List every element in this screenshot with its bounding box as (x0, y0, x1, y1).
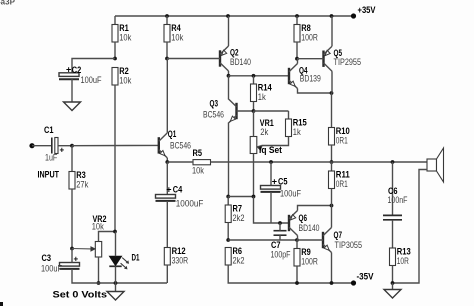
wire R15 top lead (288, 111, 290, 119)
node R3/C3/VR2 wiper (70, 247, 74, 251)
wire C6 to R13 (392, 220, 394, 248)
wire to Q7 base junction (228, 239, 297, 241)
potentiometer VR2 (72, 242, 102, 258)
wire Q3 emitter down to R7 node (228, 124, 230, 197)
node Q6 collector/R9/Q7 base (295, 238, 299, 242)
svg-text:R15: R15 (293, 117, 307, 127)
svg-text:R9: R9 (301, 247, 311, 257)
label -35V (357, 271, 374, 281)
wire C5 bottom lead (270, 192, 272, 223)
svg-text:-a3P: -a3P (0, 0, 16, 7)
wire VR1 bottom lead crossing output line (253, 154, 255, 197)
wire to Q1 base (72, 144, 159, 146)
wire Q3 collector up (228, 76, 230, 99)
svg-text:R2: R2 (119, 66, 129, 76)
svg-text:1k: 1k (258, 92, 266, 102)
capacitor C1 (52, 138, 58, 154)
ground stem (Zobel) (392, 283, 394, 290)
svg-text:Iq Set: Iq Set (259, 145, 282, 155)
wire D1 cathode to rail (115, 266, 117, 283)
capacitor C6 (383, 215, 402, 219)
node top rail / Q5 emitter (330, 14, 334, 18)
wire D1 anode (115, 232, 117, 257)
capacitor C5 (261, 186, 281, 192)
wire input to C1 (32, 145, 51, 147)
svg-text:TIP3055: TIP3055 (335, 240, 363, 250)
wire C7 bottom lead (279, 235, 281, 240)
node top rail / R4 (165, 14, 169, 18)
svg-text:R5: R5 (193, 148, 203, 158)
wire speaker return (393, 170, 428, 284)
capacitor C7 (274, 231, 287, 236)
wire R15 bottom to VR1 wiper (262, 137, 289, 146)
resistor R6 (225, 246, 244, 265)
svg-text:R6: R6 (233, 246, 243, 256)
svg-text:+: + (74, 254, 79, 263)
ground (main) (107, 292, 124, 301)
wire R3 bottom lead (71, 189, 73, 249)
wire R9 bottom lead (296, 266, 298, 283)
wire Q6 collector down (297, 236, 299, 241)
node C1/R3/Q1 base (70, 144, 74, 148)
svg-text:100R: 100R (301, 32, 318, 42)
svg-text:R13: R13 (397, 246, 411, 256)
wire R2 to VR2/D1 node (114, 85, 116, 232)
label +35V (358, 5, 376, 15)
svg-text:BC546: BC546 (170, 140, 191, 150)
node top rail / R8 (295, 14, 299, 18)
wire R7 bottom lead (227, 223, 229, 241)
svg-text:1000uF: 1000uF (176, 198, 204, 208)
wire R7 node to VR1 bottom (228, 196, 253, 198)
wire Q4 collector up (297, 59, 299, 64)
svg-text:100nF: 100nF (388, 195, 408, 205)
transistor Q5 (324, 46, 333, 71)
resistor R9 (294, 247, 318, 266)
wire R11 bottom lead (331, 189, 333, 206)
label VR2 value (92, 222, 104, 232)
svg-text:-35V: -35V (357, 271, 374, 281)
svg-text:Q2: Q2 (230, 47, 239, 57)
node R1/R2/C2 (113, 57, 117, 61)
svg-text:C2: C2 (72, 65, 82, 75)
svg-text:R12: R12 (172, 246, 186, 256)
resistor R4 (164, 23, 184, 43)
svg-text:0R1: 0R1 (336, 135, 348, 145)
label D1 (132, 252, 140, 262)
svg-text:100uF: 100uF (41, 263, 62, 273)
svg-text:R7: R7 (233, 203, 243, 213)
wire top +35V rail (115, 15, 354, 17)
wire Q2 emitter to rail (228, 16, 230, 46)
wire R12 bottom lead (166, 265, 168, 283)
svg-text:BD140: BD140 (299, 223, 320, 233)
wire R3 top lead (71, 146, 73, 172)
svg-text:10k: 10k (192, 165, 204, 175)
svg-text:+: + (272, 176, 277, 186)
svg-text:1uF: 1uF (45, 152, 58, 162)
wire to C4 (166, 162, 168, 195)
resistor R5 (193, 160, 211, 165)
node D1/ground rail (114, 281, 118, 285)
node R2/VR2/D1 (113, 230, 117, 234)
wire to C6 (392, 162, 394, 215)
svg-text:BC546: BC546 (203, 109, 224, 119)
wire C4 to R12 (166, 201, 168, 248)
svg-text:Q7: Q7 (334, 230, 343, 240)
wire R8 top lead (296, 16, 298, 25)
node R4/Q2 base (165, 57, 169, 61)
svg-text:100R: 100R (301, 256, 318, 266)
label Iq Set (259, 145, 282, 155)
node output/C5 (269, 160, 273, 164)
wire C2 to R1-R2 node (72, 59, 115, 73)
ground stem (main) (115, 283, 117, 292)
wire Q1 emitter down (166, 158, 168, 162)
node output/R10/R11 (330, 160, 334, 164)
svg-text:TIP2955: TIP2955 (334, 57, 362, 67)
transistor Q1 (159, 133, 168, 158)
wire to Q4 base (229, 75, 290, 77)
artifact bottom-left corner (0, 302, 3, 306)
node R11/Q6 emitter/Q7 collector (330, 204, 334, 208)
resistor R12 (164, 246, 188, 265)
resistor R11 (329, 169, 350, 189)
wire R13 bottom lead (392, 266, 394, 284)
svg-text:27k: 27k (76, 179, 88, 189)
wire R14 top lead (253, 76, 255, 84)
ground (C2) (64, 102, 81, 111)
wire Q3 base (237, 110, 254, 112)
svg-text:INPUT: INPUT (38, 170, 60, 180)
label INPUT (38, 170, 60, 180)
resistor R15 (286, 117, 307, 137)
svg-text:+: + (60, 145, 65, 154)
node R8/Q4 collector/Q5 base (295, 57, 299, 61)
node Q1 emitter/R5/C4 (165, 160, 169, 164)
node R9/-35V rail (295, 281, 299, 285)
wire R14 bottom lead (253, 102, 255, 112)
node R13/speaker return (391, 281, 395, 285)
wire Q6 emitter up (298, 206, 332, 211)
svg-text:10R: 10R (397, 256, 409, 266)
wire Q5 collector down (331, 71, 333, 93)
svg-text:100pF: 100pF (271, 249, 291, 259)
svg-text:10k: 10k (119, 75, 131, 85)
node R6/R7/Q7 base line (226, 238, 230, 242)
wire C2 to ground (71, 79, 73, 102)
svg-text:1k: 1k (293, 127, 301, 137)
resistor R7 (225, 203, 244, 223)
wire to R10 (331, 93, 333, 128)
wire R7 top lead (227, 197, 229, 206)
wire Q2 base (167, 58, 220, 60)
node top rail / Q2 emitter (226, 14, 230, 18)
artifact top-left corner (0, 0, 16, 7)
node R7 top (226, 195, 230, 199)
resistor R13 (390, 246, 411, 265)
svg-text:C5: C5 (278, 177, 288, 187)
resistor R8 (294, 23, 318, 43)
svg-text:Q1: Q1 (168, 129, 177, 139)
node C7 top/Q6 base (278, 221, 282, 225)
svg-text:10k: 10k (92, 222, 104, 232)
node R14 top (252, 74, 256, 78)
svg-text:Q3: Q3 (210, 99, 219, 109)
wire C3 top lead (71, 249, 73, 263)
svg-text:C3: C3 (42, 253, 52, 263)
svg-text:10k: 10k (119, 32, 131, 42)
speaker LS1 (427, 148, 444, 182)
svg-text:C1: C1 (44, 125, 54, 135)
svg-text:R1: R1 (119, 23, 129, 33)
wire VR2 top to R2 column (99, 232, 116, 242)
resistor R14 (251, 82, 272, 102)
wire R6 top lead (227, 248, 229, 258)
node VR2/ground rail (97, 281, 101, 285)
wire C1 to node (58, 145, 72, 147)
wire Q1 collector to R4 (166, 59, 168, 133)
node Q2 coll/Q3 coll/R14 (227, 74, 231, 78)
node Q5 collector/Q4 emitter/R10 (330, 91, 334, 95)
wire to Q6 base (254, 197, 290, 224)
wire ground rail left (72, 269, 167, 283)
svg-text:R4: R4 (171, 23, 181, 33)
resistor R10 (329, 126, 350, 146)
svg-text:+: + (66, 65, 71, 75)
resistor R1 (112, 23, 132, 43)
potentiometer VR1 (250, 137, 262, 154)
svg-text:Set 0 Volts: Set 0 Volts (53, 290, 108, 300)
wire R11 top lead (331, 162, 333, 171)
svg-text:2k2: 2k2 (233, 255, 245, 265)
resistor R2 (112, 66, 132, 86)
svg-text:R11: R11 (336, 169, 350, 179)
svg-text:2k: 2k (260, 127, 268, 137)
svg-text:+35V: +35V (358, 5, 376, 15)
wire Q5 base (297, 58, 324, 60)
wire Q7 emitter to -35V rail (331, 253, 333, 284)
svg-text:BD140: BD140 (230, 57, 251, 67)
node VR1 bottom (252, 195, 256, 199)
svg-text:R14: R14 (258, 82, 272, 92)
wire R1 bottom lead (114, 42, 116, 59)
wire R8 bottom lead (296, 42, 298, 59)
resistor R3 (69, 170, 89, 190)
transistor Q6 (289, 211, 298, 236)
wire -35V rail (228, 265, 353, 283)
wire C7 top lead (279, 223, 281, 231)
wire VR1 top lead (253, 111, 255, 137)
node Q7/-35V rail (330, 281, 334, 285)
capacitor C4 (156, 195, 176, 201)
transistor Q4 (289, 64, 298, 89)
wire C5 top lead (270, 162, 272, 186)
transistor Q7 (323, 228, 332, 253)
terminal -35V (351, 280, 356, 285)
transistor Q3 (228, 99, 237, 124)
capacitor C3 (60, 263, 80, 269)
wire Q2 collector down (228, 71, 230, 76)
svg-text:100uF: 100uF (81, 75, 102, 85)
svg-text:C4: C4 (173, 185, 183, 195)
label Set 0 Volts (53, 290, 108, 300)
svg-text:10k: 10k (171, 32, 183, 42)
svg-text:R3: R3 (76, 170, 86, 180)
ground (Zobel) (384, 290, 401, 299)
wire R9 top lead (296, 240, 298, 249)
node output/Zobel (391, 160, 395, 164)
wire VR2 bottom to ground rail (98, 257, 100, 283)
wire Q1 emitter to R5 (167, 161, 193, 163)
svg-text:Q6: Q6 (299, 213, 308, 223)
svg-text:R10: R10 (336, 126, 350, 136)
transistor Q2 (220, 46, 229, 71)
capacitor C2 (59, 73, 79, 79)
wire Q7 collector up (331, 206, 333, 228)
wire Q4 emitter to Q5 collector (298, 89, 332, 94)
wire Q5 emitter to rail (331, 16, 333, 46)
svg-text:330R: 330R (172, 255, 189, 265)
wire R4 bottom lead (166, 42, 168, 59)
wire Q7 base (297, 239, 323, 241)
wire R10 bottom lead (331, 145, 333, 162)
terminal +35V (351, 13, 356, 18)
LED D1 (109, 256, 129, 269)
label VR2 (93, 214, 107, 224)
wire R1 top lead (114, 16, 116, 25)
wire R4 top lead (166, 16, 168, 25)
svg-text:100uF: 100uF (280, 189, 301, 199)
svg-text:BD139: BD139 (300, 73, 321, 83)
svg-text:R8: R8 (301, 23, 311, 33)
wire output line (211, 161, 428, 163)
wire to R15 top (254, 110, 289, 112)
svg-text:D1: D1 (132, 252, 140, 262)
terminal INPUT (29, 143, 34, 148)
node Q3 base/R14/VR1/R15 (252, 109, 256, 113)
svg-text:2k2: 2k2 (233, 213, 245, 223)
svg-text:+: + (166, 184, 171, 194)
svg-text:0R1: 0R1 (336, 179, 348, 189)
